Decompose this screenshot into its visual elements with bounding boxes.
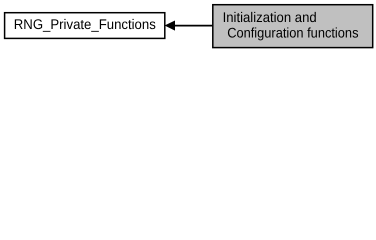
svg-text:Initialization and: Initialization and [223, 9, 317, 25]
svg-text:Configuration functions: Configuration functions [227, 24, 358, 40]
svg-text:RNG_Private_Functions: RNG_Private_Functions [14, 16, 156, 32]
